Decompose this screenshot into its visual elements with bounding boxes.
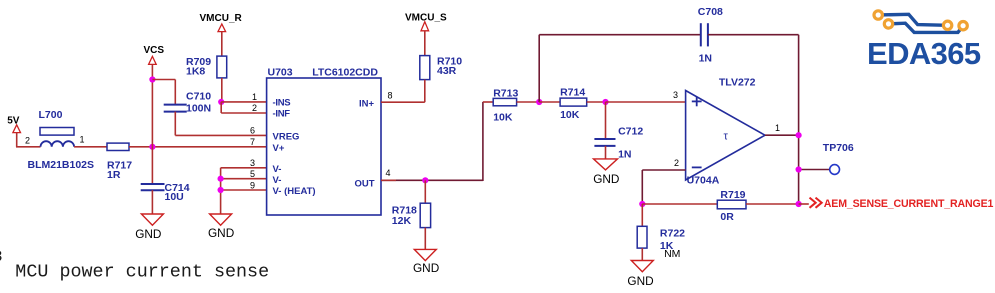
svg-text:1N: 1N bbox=[699, 53, 712, 65]
logo pad 2 bbox=[884, 20, 892, 28]
svg-text:R713: R713 bbox=[493, 87, 518, 99]
wire output vertical bbox=[798, 35, 800, 204]
wire bbox=[746, 203, 799, 205]
node output/feedback bbox=[796, 132, 802, 138]
svg-text:VREG: VREG bbox=[273, 131, 300, 142]
wire bbox=[221, 78, 223, 102]
logo trace lower bbox=[889, 23, 964, 32]
resistor R718 bbox=[424, 180, 426, 203]
wire bbox=[174, 112, 176, 136]
wire bbox=[641, 248, 643, 260]
node TP branch bbox=[796, 166, 802, 172]
svg-text:8: 8 bbox=[388, 91, 393, 101]
svg-text:C710: C710 bbox=[186, 90, 211, 102]
svg-text:3: 3 bbox=[250, 158, 255, 168]
svg-text:BLM21B102S: BLM21B102S bbox=[28, 159, 95, 171]
logo trace upper bbox=[878, 14, 947, 25]
port chevrons bbox=[810, 198, 822, 208]
wire pin5 stub bbox=[221, 178, 267, 180]
svg-text:VMCU_R: VMCU_R bbox=[200, 13, 243, 24]
svg-text:L700: L700 bbox=[39, 109, 63, 121]
svg-text:1: 1 bbox=[775, 123, 780, 133]
svg-text:R714: R714 bbox=[560, 86, 585, 98]
svg-text:10K: 10K bbox=[560, 109, 580, 121]
svg-text:5V: 5V bbox=[7, 115, 20, 126]
svg-text:-INS: -INS bbox=[273, 98, 291, 109]
ground bbox=[594, 159, 618, 170]
resistor R722 bbox=[641, 204, 643, 226]
node VCS junction bbox=[149, 144, 155, 150]
svg-text:4: 4 bbox=[386, 168, 391, 178]
node C712 branch bbox=[602, 99, 608, 105]
svg-text:OUT: OUT bbox=[354, 179, 374, 190]
svg-text:LTC6102CDD: LTC6102CDD bbox=[312, 66, 378, 78]
svg-text:9: 9 bbox=[250, 180, 255, 190]
svg-text:6: 6 bbox=[250, 126, 255, 136]
svg-text:U703: U703 bbox=[268, 66, 293, 78]
svg-text:R722: R722 bbox=[660, 228, 685, 240]
wire bbox=[799, 203, 809, 205]
wire bbox=[424, 228, 426, 250]
wire bbox=[424, 31, 426, 56]
svg-text:TP706: TP706 bbox=[823, 142, 854, 154]
svg-text:7: 7 bbox=[250, 137, 255, 147]
svg-text:8: 8 bbox=[0, 248, 3, 266]
node OUT/R718 bbox=[422, 177, 428, 183]
resistor R710 bbox=[420, 56, 430, 80]
svg-text:NM: NM bbox=[664, 248, 680, 260]
wire pin9 stub bbox=[221, 189, 267, 191]
wire 5V rail bbox=[129, 146, 267, 148]
ground bbox=[210, 214, 232, 225]
wire to op-amp + bbox=[606, 101, 686, 103]
svg-text:GND: GND bbox=[208, 226, 234, 240]
wire feedback top bbox=[539, 34, 701, 36]
svg-text:MCU power current sense: MCU power current sense bbox=[15, 262, 269, 283]
wire pin1 net bbox=[221, 101, 266, 103]
logo pad 3 bbox=[943, 21, 951, 29]
capacitor C712 bbox=[605, 102, 607, 139]
svg-text:2: 2 bbox=[25, 135, 30, 145]
svg-text:1R: 1R bbox=[107, 169, 121, 181]
svg-text:U704A: U704A bbox=[687, 175, 720, 187]
wire op-amp - input bbox=[642, 169, 685, 171]
wire bbox=[539, 101, 560, 103]
wire bbox=[221, 32, 223, 56]
wire pin3 net bbox=[221, 167, 267, 169]
ground bbox=[414, 249, 436, 260]
svg-text:1: 1 bbox=[80, 134, 85, 144]
wire bbox=[16, 133, 18, 147]
svg-text:TLV272: TLV272 bbox=[719, 76, 756, 88]
ground bbox=[141, 214, 163, 225]
node pin9 bbox=[218, 187, 224, 193]
wire riser to R713 bbox=[482, 102, 484, 181]
wire bbox=[517, 101, 540, 103]
capacitor C714 bbox=[151, 147, 153, 184]
svg-text:V-: V- bbox=[273, 175, 282, 186]
svg-text:V+: V+ bbox=[273, 143, 285, 154]
svg-text:EDA365: EDA365 bbox=[867, 36, 981, 71]
resistor R717 bbox=[107, 143, 129, 150]
wire bbox=[605, 146, 607, 159]
wire bbox=[152, 79, 175, 81]
resistor R714 bbox=[560, 98, 587, 106]
svg-text:3: 3 bbox=[673, 90, 678, 100]
svg-text:43R: 43R bbox=[437, 65, 457, 77]
wire bbox=[642, 203, 717, 205]
wire pin2 net bbox=[220, 102, 222, 113]
svg-text:V-: V- bbox=[273, 164, 282, 175]
svg-text:1: 1 bbox=[252, 92, 257, 102]
op-amp U703 LTC6102CDD body bbox=[267, 78, 381, 215]
resistor R709 bbox=[217, 56, 227, 78]
svg-text:VCS: VCS bbox=[144, 45, 165, 56]
svg-text:-INF: -INF bbox=[273, 109, 291, 120]
logo pad 4 bbox=[959, 22, 967, 30]
svg-text:12K: 12K bbox=[392, 215, 412, 227]
node R709/pin1 bbox=[218, 99, 224, 105]
wire op-amp output bbox=[765, 134, 799, 136]
svg-text:10K: 10K bbox=[493, 112, 513, 124]
svg-text:C708: C708 bbox=[698, 6, 723, 18]
svg-text:GND: GND bbox=[593, 172, 619, 186]
wire bbox=[74, 146, 107, 148]
svg-text:C712: C712 bbox=[618, 125, 643, 137]
svg-text:2: 2 bbox=[674, 158, 679, 168]
node inverting net bbox=[639, 201, 645, 207]
wire feedback top right bbox=[708, 34, 799, 36]
wire bbox=[151, 64, 153, 146]
svg-text:R719: R719 bbox=[720, 189, 745, 201]
wire feedback riser bbox=[538, 35, 540, 102]
resistor R713 bbox=[493, 98, 516, 105]
resistor R719 bbox=[717, 200, 746, 209]
wire bbox=[151, 190, 153, 214]
svg-text:AEM_SENSE_CURRENT_RANGE1: AEM_SENSE_CURRENT_RANGE1 bbox=[824, 198, 994, 210]
svg-text:τ: τ bbox=[724, 131, 729, 143]
svg-text:100N: 100N bbox=[186, 102, 211, 114]
wire OUT net bbox=[381, 179, 483, 181]
wire bbox=[587, 101, 606, 103]
svg-text:VMCU_S: VMCU_S bbox=[405, 13, 447, 24]
node feedback junction bbox=[536, 99, 542, 105]
logo pad 1 bbox=[874, 11, 882, 19]
node output port junction bbox=[796, 201, 802, 207]
wire TP branch bbox=[799, 169, 830, 171]
svg-text:V- (HEAT): V- (HEAT) bbox=[273, 186, 316, 197]
svg-text:IN+: IN+ bbox=[359, 98, 375, 109]
wire pin8 net bbox=[424, 80, 426, 103]
svg-text:GND: GND bbox=[135, 227, 161, 241]
svg-text:1K8: 1K8 bbox=[186, 66, 205, 78]
svg-text:2: 2 bbox=[252, 103, 257, 113]
node C710 branch bbox=[149, 76, 155, 82]
svg-text:GND: GND bbox=[627, 274, 653, 288]
svg-text:0R: 0R bbox=[720, 211, 734, 223]
svg-text:10U: 10U bbox=[165, 191, 184, 203]
svg-text:5: 5 bbox=[250, 169, 255, 179]
svg-text:GND: GND bbox=[413, 261, 439, 275]
capacitor C710 bbox=[164, 104, 187, 106]
node pin5 bbox=[218, 176, 224, 182]
capacitor C708 bbox=[700, 23, 702, 46]
ground bbox=[631, 261, 653, 272]
svg-text:1N: 1N bbox=[618, 149, 631, 161]
